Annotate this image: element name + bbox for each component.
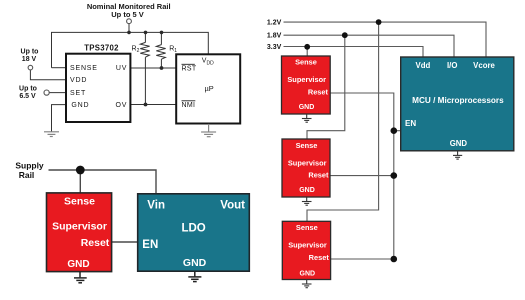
- svg-text:UV: UV: [116, 65, 127, 72]
- svg-text:SENSE: SENSE: [70, 65, 98, 72]
- svg-text:Sense: Sense: [64, 196, 95, 208]
- svg-text:Up to 5 V: Up to 5 V: [111, 10, 144, 19]
- svg-text:GND: GND: [450, 139, 468, 148]
- svg-text:1.8V: 1.8V: [267, 33, 282, 40]
- svg-text:GND: GND: [299, 104, 315, 111]
- svg-text:Reset: Reset: [308, 87, 329, 96]
- svg-text:1.2V: 1.2V: [267, 20, 282, 27]
- svg-text:Up to: Up to: [19, 86, 37, 93]
- svg-text:I/O: I/O: [447, 61, 457, 70]
- svg-text:Supervisor: Supervisor: [52, 220, 107, 232]
- svg-text:Vin: Vin: [147, 199, 165, 211]
- svg-text:Vout: Vout: [220, 199, 245, 211]
- svg-text:EN: EN: [405, 119, 416, 128]
- svg-text:Supervisor: Supervisor: [287, 75, 326, 84]
- svg-text:NMI: NMI: [182, 102, 196, 109]
- svg-text:TPS3702: TPS3702: [84, 43, 119, 52]
- svg-text:Reset: Reset: [309, 253, 330, 262]
- svg-text:Reset: Reset: [308, 171, 329, 180]
- svg-text:Supervisor: Supervisor: [288, 241, 327, 250]
- svg-text:GND: GND: [67, 259, 89, 270]
- svg-text:GND: GND: [299, 187, 315, 194]
- svg-text:Reset: Reset: [81, 237, 110, 249]
- svg-text:µP: µP: [205, 84, 214, 93]
- svg-text:Rail: Rail: [19, 170, 35, 180]
- svg-text:18 V: 18 V: [22, 56, 37, 63]
- svg-text:EN: EN: [142, 239, 158, 251]
- svg-text:Supervisor: Supervisor: [288, 158, 327, 167]
- svg-text:Supply: Supply: [15, 160, 44, 170]
- svg-text:3.3V: 3.3V: [267, 44, 282, 51]
- svg-text:SET: SET: [70, 90, 86, 97]
- svg-text:LDO: LDO: [181, 223, 205, 235]
- svg-text:RST: RST: [182, 65, 197, 72]
- svg-text:GND: GND: [300, 270, 316, 277]
- svg-text:Vcore: Vcore: [473, 61, 495, 70]
- svg-text:Sense: Sense: [296, 141, 318, 150]
- svg-text:OV: OV: [115, 102, 127, 109]
- svg-text:Sense: Sense: [295, 58, 317, 67]
- svg-text:MCU / Microprocessors: MCU / Microprocessors: [412, 96, 504, 105]
- svg-text:GND: GND: [183, 257, 207, 269]
- svg-text:Up to: Up to: [21, 49, 39, 56]
- svg-text:Vdd: Vdd: [416, 61, 431, 70]
- svg-text:Sense: Sense: [296, 223, 318, 232]
- svg-text:6.5 V: 6.5 V: [19, 93, 36, 100]
- svg-text:GND: GND: [71, 102, 89, 109]
- svg-text:VDD: VDD: [70, 77, 87, 84]
